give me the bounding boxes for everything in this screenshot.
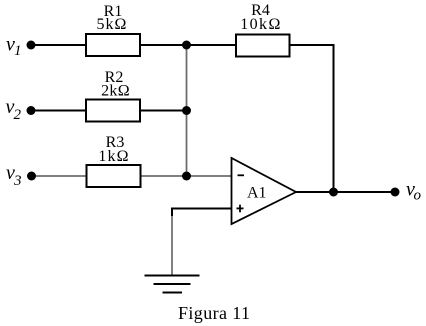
wire noninverting input to ground: [172, 209, 232, 219]
resistor R1: [86, 34, 140, 56]
node summing junction row3: [182, 172, 191, 181]
wire R2 to node: [139, 110, 187, 112]
wire R1 to R4 through node: [139, 44, 237, 46]
svg-text:3: 3: [13, 173, 22, 189]
inverting pin minus: [238, 174, 245, 176]
wire ground vertical: [171, 216, 173, 276]
wire R3 to node: [139, 175, 187, 177]
wire v2 input to R2: [31, 110, 87, 112]
svg-text:1kΩ: 1kΩ: [98, 148, 129, 165]
svg-text:1: 1: [14, 43, 22, 59]
terminal v3: [6, 162, 36, 189]
node summing junction row1: [182, 41, 191, 50]
svg-text:10kΩ: 10kΩ: [240, 16, 282, 33]
terminal v2: [6, 96, 36, 123]
noninverting pin plus: [237, 207, 244, 209]
terminal v1: [6, 34, 36, 60]
node summing junction row2: [182, 106, 191, 115]
wire summing node column: [186, 45, 188, 176]
svg-text:2: 2: [14, 107, 22, 123]
wire op-amp output: [295, 191, 395, 193]
svg-text:5kΩ: 5kΩ: [97, 16, 128, 33]
op-amp A1: [232, 158, 297, 224]
terminal vo: [391, 179, 422, 204]
svg-text:o: o: [414, 188, 422, 204]
svg-text:2kΩ: 2kΩ: [101, 83, 130, 100]
svg-text:Figura 11: Figura 11: [178, 303, 250, 323]
ground: [145, 276, 200, 293]
wire node to inverting input: [187, 175, 232, 177]
wire R4 output down to output node: [289, 45, 334, 192]
wire v3 input to R3: [32, 175, 88, 177]
svg-text:A1: A1: [247, 185, 267, 202]
resistor R2: [86, 100, 140, 122]
wire v1 input to R1: [31, 44, 87, 46]
resistor R3: [87, 165, 141, 187]
resistor R4: [236, 35, 290, 57]
node feedback junction: [329, 188, 338, 197]
